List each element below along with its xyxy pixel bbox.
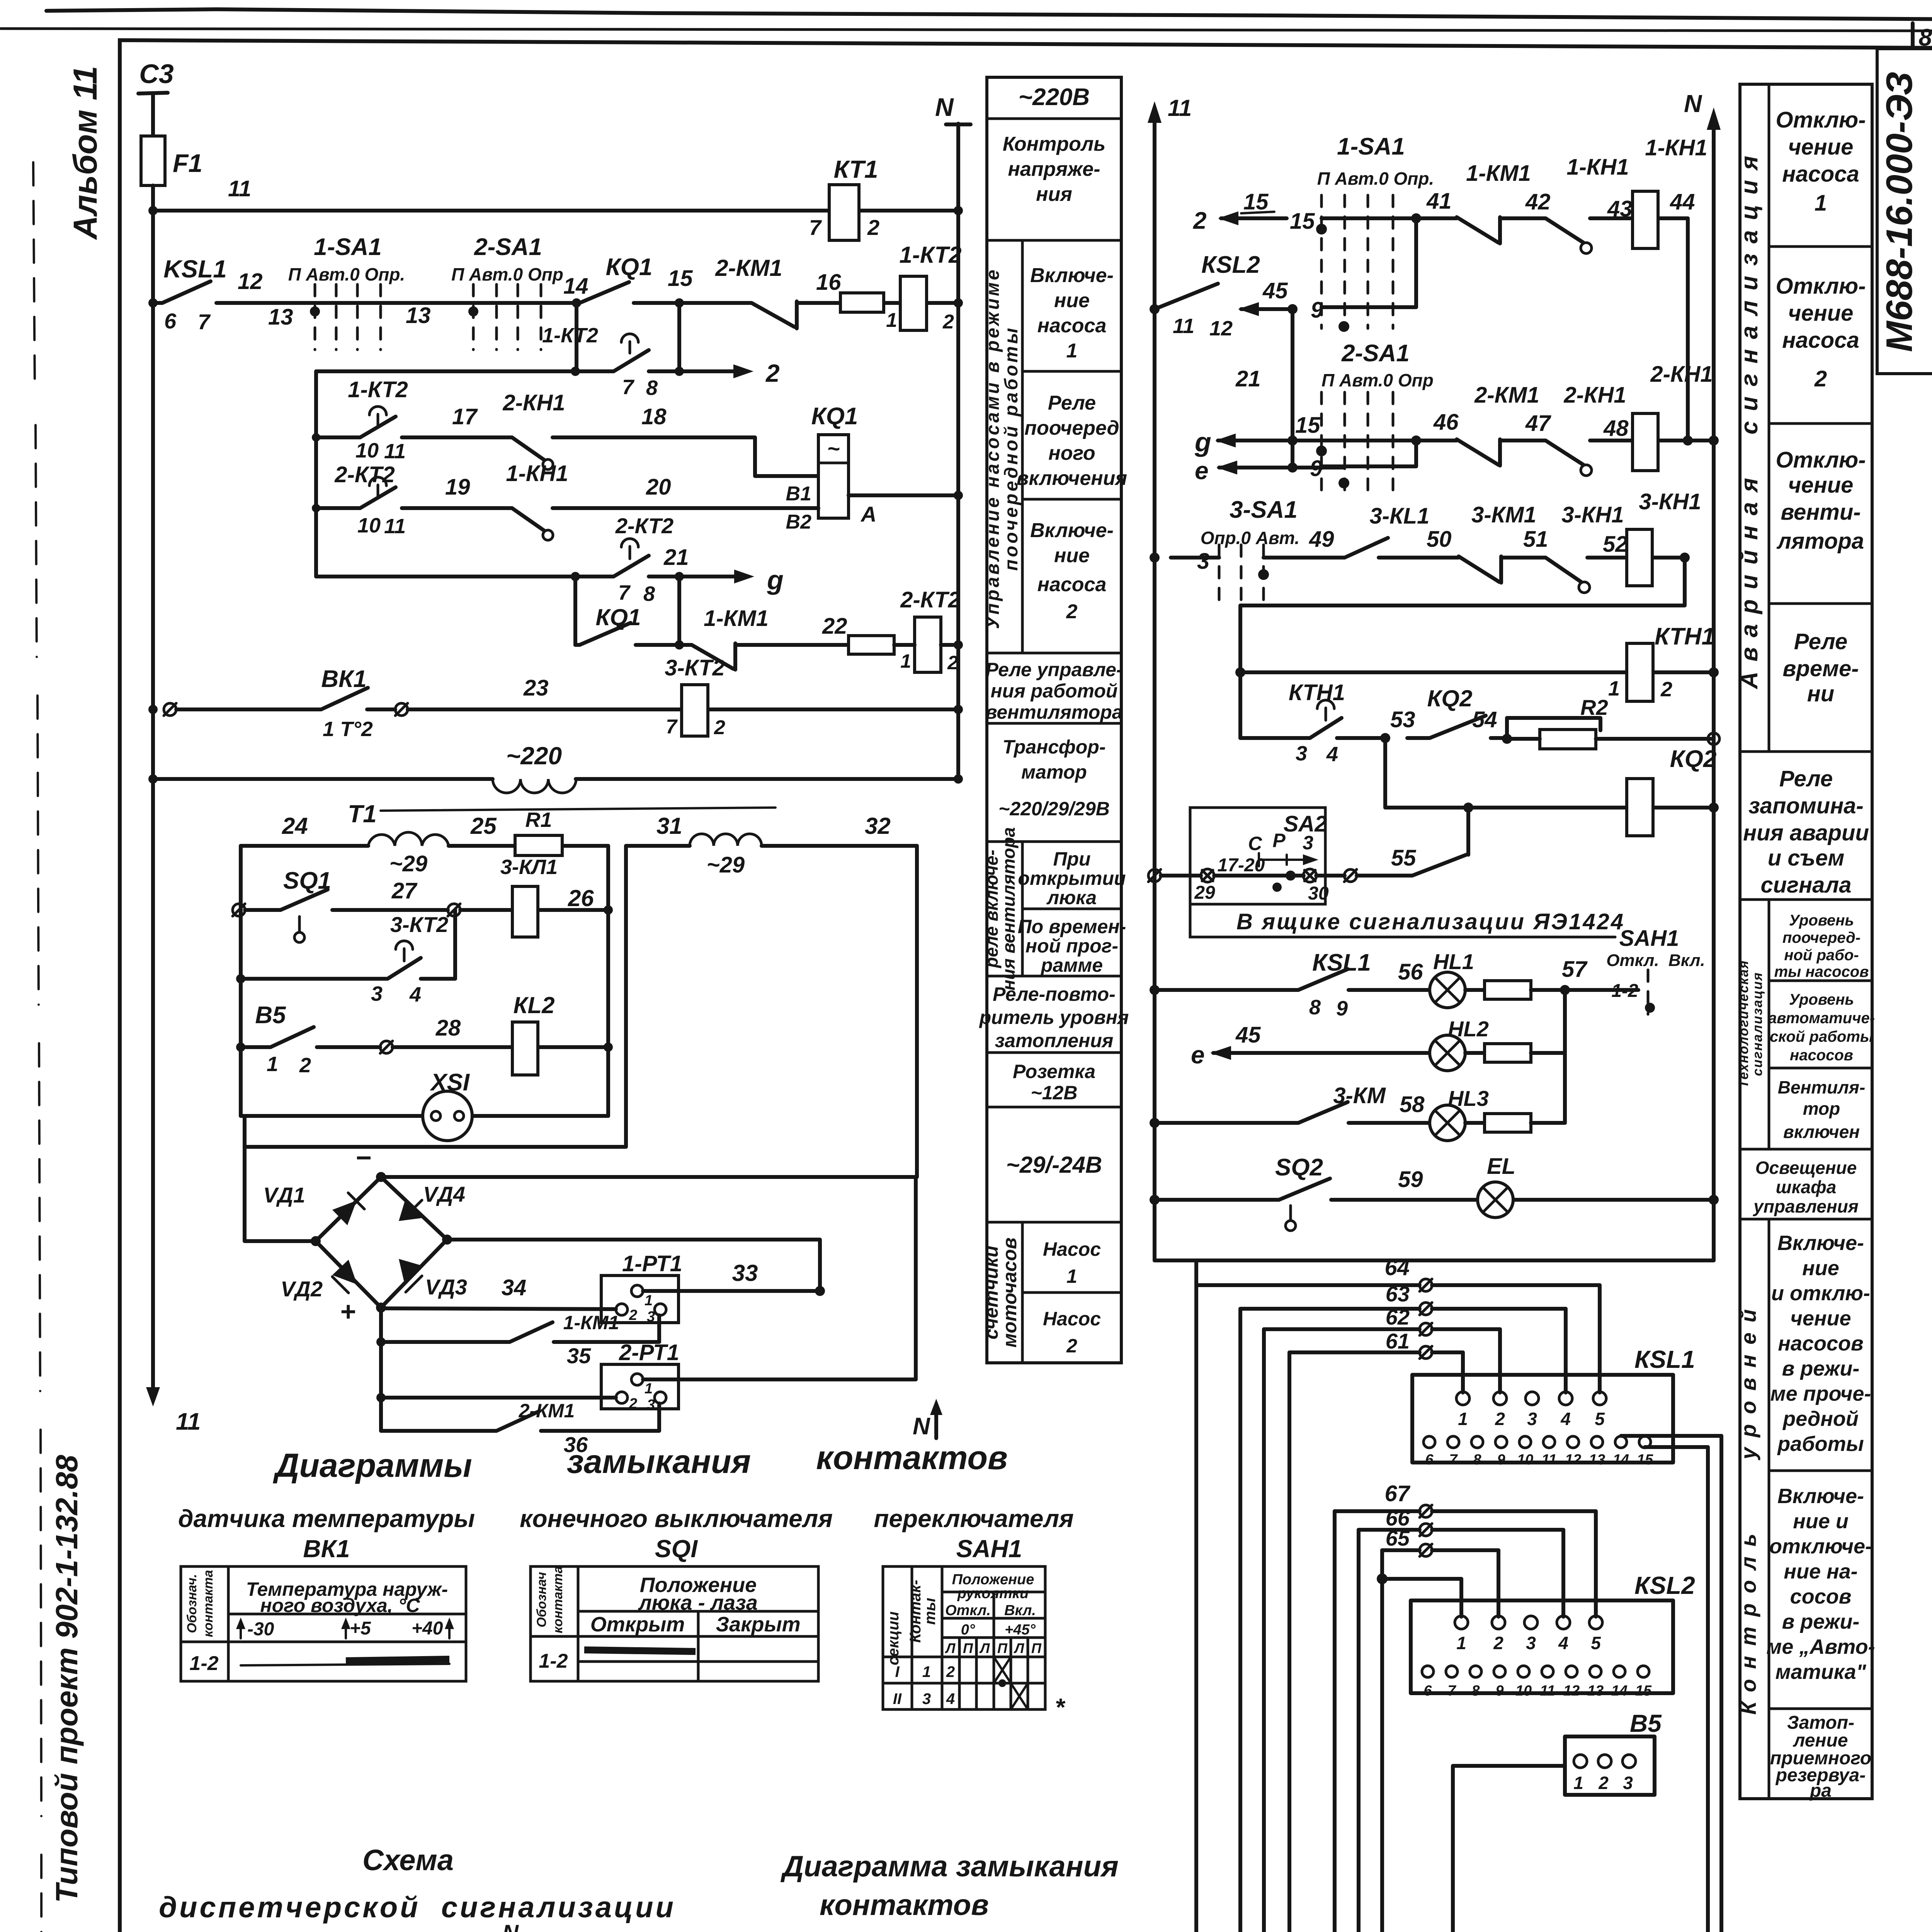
- svg-text:VД4: VД4: [423, 1182, 465, 1206]
- svg-text:Контроль: Контроль: [1003, 133, 1105, 155]
- svg-text:21: 21: [663, 545, 689, 570]
- coil 3-KL1: [512, 886, 538, 937]
- svg-text:2: 2: [947, 652, 958, 673]
- svg-text:10: 10: [357, 514, 381, 537]
- svg-text:13: 13: [1589, 1452, 1605, 1468]
- svg-text:ния: ния: [1036, 183, 1072, 206]
- svg-text:КL2: КL2: [514, 992, 555, 1018]
- svg-text:П Авт.0 Опр: П Авт.0 Опр: [1321, 370, 1434, 390]
- svg-text:8: 8: [643, 582, 655, 605]
- wire row2: [1416, 439, 1714, 442]
- svg-text:51: 51: [1523, 527, 1548, 552]
- svg-text:3: 3: [1296, 742, 1307, 765]
- svg-text:2: 2: [1660, 678, 1672, 701]
- svg-text:ние и: ние и: [1793, 1510, 1849, 1533]
- svg-text:+45°: +45°: [1005, 1622, 1036, 1638]
- svg-text:3-КТ2: 3-КТ2: [390, 912, 448, 937]
- svg-text:3: 3: [1623, 1773, 1633, 1793]
- svg-text:9: 9: [1497, 1452, 1505, 1468]
- svg-text:П Авт.0 Опр.: П Авт.0 Опр.: [1317, 168, 1434, 189]
- svg-text:ЕL: ЕL: [1487, 1154, 1515, 1179]
- svg-text:поочеред-: поочеред-: [1782, 929, 1861, 946]
- bus 11 left: [1153, 121, 1156, 1260]
- svg-text:11: 11: [1173, 315, 1194, 338]
- svg-text:11: 11: [1541, 1452, 1556, 1468]
- svg-text:56: 56: [1398, 959, 1423, 985]
- svg-text:ного воздуха, °С: ного воздуха, °С: [260, 1595, 420, 1616]
- wire KQ1 out: [849, 493, 958, 497]
- svg-text:ской работы: ской работы: [1770, 1028, 1873, 1045]
- svg-text:31: 31: [656, 813, 682, 839]
- svg-text:рукоятки: рукоятки: [957, 1585, 1029, 1602]
- box SA2: [1190, 808, 1325, 904]
- svg-text:2-КН1: 2-КН1: [1650, 362, 1713, 387]
- svg-text:Опр.0 Авт.: Опр.0 Авт.: [1201, 528, 1300, 548]
- svg-text:Р: Р: [1272, 830, 1286, 851]
- clamp terminals: [1201, 869, 1214, 882]
- svg-text:моточасов: моточасов: [999, 1238, 1020, 1348]
- svg-text:Розетка: Розетка: [1013, 1061, 1095, 1082]
- svg-text:~220: ~220: [506, 742, 562, 770]
- svg-text:П: П: [963, 1640, 973, 1656]
- svg-text:1: 1: [1066, 340, 1078, 362]
- svg-text:g: g: [1194, 427, 1211, 457]
- svg-text:35: 35: [567, 1344, 591, 1368]
- coil 1-KH1: [1633, 191, 1658, 248]
- svg-text:1-КН1: 1-КН1: [1566, 155, 1629, 180]
- svg-text:26: 26: [568, 885, 594, 911]
- svg-text:1: 1: [645, 1381, 653, 1397]
- svg-text:20: 20: [646, 474, 671, 500]
- svg-text:11: 11: [228, 176, 251, 201]
- svg-text:3-КТ2: 3-КТ2: [665, 655, 725, 680]
- svg-text:работы: работы: [1777, 1432, 1864, 1456]
- coil 3-KH1: [1627, 529, 1652, 586]
- svg-text:Реле: Реле: [1794, 629, 1847, 654]
- svg-text:чение: чение: [1788, 134, 1854, 160]
- svg-text:5: 5: [1591, 1633, 1601, 1653]
- svg-text:2-КН1: 2-КН1: [1563, 383, 1626, 408]
- svg-text:Реле: Реле: [1779, 766, 1833, 791]
- svg-text:4: 4: [1560, 1409, 1571, 1429]
- coil 3-KT2: [682, 685, 708, 736]
- svg-text:тор: тор: [1803, 1099, 1840, 1119]
- svg-text:7: 7: [1449, 1452, 1458, 1468]
- T1 inner right rail: [606, 846, 610, 1116]
- svg-text:23: 23: [523, 675, 549, 701]
- top-right vertical doc-number box: [1877, 49, 1932, 374]
- svg-text:1: 1: [1608, 677, 1620, 700]
- svg-text:N: N: [502, 1920, 519, 1932]
- svg-text:R1: R1: [525, 808, 552, 832]
- svg-text:62: 62: [1386, 1305, 1410, 1329]
- diode VD1: [332, 1201, 357, 1225]
- wire row to pin2: [376, 1393, 386, 1402]
- svg-text:55: 55: [1391, 845, 1416, 871]
- svg-text:8: 8: [1471, 1683, 1480, 1699]
- svg-text:3: 3: [1197, 549, 1209, 574]
- svg-text:g: g: [767, 565, 784, 595]
- svg-text:ты насосов: ты насосов: [1774, 963, 1869, 980]
- svg-text:Обознач: Обознач: [534, 1572, 549, 1628]
- terminal: [395, 703, 408, 716]
- svg-text:КSL2: КSL2: [1201, 252, 1260, 278]
- svg-text:15: 15: [1243, 189, 1269, 214]
- svg-text:ме „Авто-: ме „Авто-: [1766, 1635, 1875, 1658]
- svg-text:7: 7: [198, 310, 211, 334]
- lamp row 56 KSL1: [1150, 985, 1160, 995]
- winding ~220: [493, 779, 576, 793]
- svg-text:2: 2: [1598, 1773, 1609, 1793]
- svg-text:Управление насосами в режиме: Управление насосами в режиме: [983, 267, 1003, 629]
- svg-text:Контроль уровней: Контроль уровней: [1736, 1299, 1760, 1714]
- svg-text:63: 63: [1386, 1282, 1410, 1306]
- svg-text:8: 8: [646, 376, 658, 400]
- wire drop 53: [1383, 738, 1387, 808]
- contact KSL1: [162, 281, 211, 303]
- svg-text:48: 48: [1603, 416, 1629, 441]
- wire branch y961: [577, 303, 679, 371]
- svg-text:1-КН1: 1-КН1: [506, 461, 568, 486]
- svg-text:Вкл.: Вкл.: [1004, 1602, 1036, 1619]
- svg-text:1-КМ1: 1-КМ1: [704, 606, 769, 631]
- svg-text:Диаграммы: Диаграммы: [272, 1447, 472, 1484]
- svg-text:насоса: насоса: [1037, 315, 1107, 337]
- svg-text:3: 3: [371, 982, 383, 1005]
- svg-text:напряже-: напряже-: [1008, 158, 1100, 180]
- svg-text:П: П: [997, 1640, 1008, 1656]
- svg-text:53: 53: [1390, 707, 1415, 732]
- svg-text:KSL1: KSL1: [163, 255, 227, 283]
- svg-text:50: 50: [1427, 527, 1452, 552]
- contact 1-KM1 row35: [376, 1337, 386, 1347]
- svg-text:1: 1: [922, 1663, 931, 1680]
- svg-text:С: С: [1248, 833, 1262, 854]
- svg-text:3-КН1: 3-КН1: [1639, 489, 1701, 514]
- svg-text:ние: ние: [1802, 1257, 1839, 1280]
- table BK1: [181, 1566, 466, 1681]
- svg-text:4: 4: [1326, 743, 1338, 766]
- svg-text:1-КМ1: 1-КМ1: [1466, 161, 1531, 186]
- svg-text:2: 2: [1193, 207, 1206, 234]
- arrow to g: [679, 575, 737, 578]
- diode bridge: [316, 1177, 447, 1308]
- svg-text:отключе-: отключе-: [1769, 1535, 1872, 1558]
- svg-text:SАН1: SАН1: [1619, 926, 1679, 951]
- svg-text:32: 32: [865, 813, 891, 839]
- svg-text:11: 11: [1168, 95, 1192, 121]
- svg-text:В ящике сигнализации ЯЭ1424: В ящике сигнализации ЯЭ1424: [1236, 909, 1625, 934]
- svg-text:Включе-: Включе-: [1030, 264, 1114, 287]
- svg-text:диспетчерской сигнализации: диспетчерской сигнализации: [159, 1891, 676, 1924]
- svg-text:4: 4: [946, 1690, 955, 1708]
- svg-text:Типовой проект 902-1-132.88: Типовой проект 902-1-132.88: [49, 1455, 84, 1903]
- left page edge dashes: [33, 162, 42, 1932]
- svg-text:7: 7: [622, 376, 635, 399]
- svg-text:2: 2: [1066, 600, 1078, 623]
- wire 33: [643, 1289, 820, 1293]
- svg-text:люка - лаза: люка - лаза: [638, 1591, 758, 1614]
- svg-text:Насос: Насос: [1043, 1308, 1101, 1330]
- svg-text:41: 41: [1426, 189, 1452, 214]
- svg-text:N: N: [1684, 90, 1702, 117]
- svg-text:4: 4: [409, 983, 421, 1006]
- svg-text:3: 3: [1527, 1409, 1537, 1429]
- svg-text:насоса: насоса: [1782, 162, 1859, 187]
- contact KQ2 row55: [1412, 808, 1468, 876]
- svg-text:насосов: насосов: [1790, 1047, 1853, 1064]
- right column cell texts: [1743, 107, 1869, 898]
- svg-text:VД1: VД1: [263, 1183, 305, 1207]
- svg-text:2-КМ1: 2-КМ1: [519, 1400, 575, 1422]
- svg-text:ние: ние: [1054, 544, 1090, 567]
- svg-text:7: 7: [809, 215, 822, 240]
- sheet no. 81 box: [1913, 23, 1932, 49]
- B5 feed wire: [1453, 1766, 1565, 1932]
- svg-text:81: 81: [1919, 24, 1932, 51]
- svg-text:време-: време-: [1782, 656, 1859, 681]
- svg-text:8: 8: [1473, 1452, 1481, 1468]
- svg-text:*: *: [1055, 1693, 1066, 1721]
- svg-text:22: 22: [822, 614, 847, 639]
- T1 outer loop: [245, 846, 626, 1147]
- svg-text:67: 67: [1384, 1481, 1410, 1506]
- svg-text:14: 14: [1611, 1683, 1628, 1699]
- svg-text:1 Т°2: 1 Т°2: [323, 718, 373, 741]
- svg-text:Отклю-: Отклю-: [1776, 274, 1866, 299]
- svg-text:ния вентилятора: ния вентилятора: [998, 827, 1019, 991]
- svg-text:1-КТ2: 1-КТ2: [900, 242, 962, 268]
- svg-text:контактов: контактов: [816, 1439, 1008, 1476]
- svg-text:14: 14: [1613, 1452, 1629, 1468]
- svg-text:13: 13: [406, 303, 431, 328]
- svg-text:КSL2: КSL2: [1634, 1571, 1695, 1599]
- svg-text:1-КМ1: 1-КМ1: [563, 1312, 619, 1333]
- svg-text:28: 28: [435, 1015, 461, 1041]
- svg-text:29: 29: [1194, 883, 1215, 903]
- T1 winding row: [241, 844, 608, 848]
- contact 1-KT2 time: [614, 350, 649, 371]
- wire B5 row: [236, 1043, 245, 1052]
- svg-text:ной прог-: ной прог-: [1026, 935, 1118, 957]
- contact KQ1: [572, 298, 581, 308]
- svg-text:1: 1: [1456, 1633, 1466, 1653]
- svg-text:2-КМ1: 2-КМ1: [715, 255, 782, 281]
- svg-text:11: 11: [384, 440, 406, 463]
- svg-text:В2: В2: [786, 511, 812, 533]
- svg-text:12: 12: [1565, 1452, 1581, 1468]
- svg-text:15: 15: [1637, 1452, 1653, 1468]
- svg-text:59: 59: [1398, 1167, 1423, 1192]
- svg-text:5: 5: [1595, 1409, 1605, 1429]
- resistor R2: [1540, 730, 1596, 749]
- svg-text:Закрыт: Закрыт: [716, 1613, 800, 1636]
- svg-text:3: 3: [647, 1397, 655, 1413]
- svg-text:Насос: Насос: [1043, 1238, 1101, 1260]
- wire row 19-20: [319, 506, 818, 510]
- wire row 21: [316, 575, 679, 578]
- svg-text:3: 3: [647, 1309, 655, 1325]
- sub box left rail: [314, 371, 318, 577]
- svg-text:64: 64: [1384, 1255, 1410, 1280]
- svg-text:в режи-: в режи-: [1782, 1610, 1860, 1633]
- svg-text:ме проче-: ме проче-: [1770, 1382, 1871, 1405]
- contact 2-KM1 row36: [381, 1403, 659, 1431]
- wire 34: [381, 1308, 616, 1309]
- svg-text:N: N: [913, 1413, 930, 1440]
- svg-text:А: А: [860, 502, 876, 526]
- svg-text:2: 2: [765, 359, 780, 387]
- diode VD3: [399, 1259, 423, 1284]
- svg-text:в режи-: в режи-: [1782, 1357, 1860, 1380]
- svg-text:1-2: 1-2: [539, 1650, 568, 1672]
- svg-text:10: 10: [1517, 1452, 1533, 1468]
- svg-text:Трансфор-: Трансфор-: [1003, 736, 1106, 758]
- wire SQ1 row: [245, 908, 608, 912]
- svg-text:3: 3: [1526, 1633, 1536, 1653]
- diode VD2: [332, 1260, 357, 1284]
- svg-text:1-SA1: 1-SA1: [314, 234, 382, 260]
- svg-text:~: ~: [827, 436, 840, 461]
- svg-text:6: 6: [1423, 1683, 1432, 1699]
- svg-text:-30: -30: [247, 1619, 274, 1639]
- svg-text:сигнализация: сигнализация: [1750, 972, 1765, 1076]
- KSL1 right wires: [1621, 1436, 1721, 1447]
- svg-text:КТН1: КТН1: [1655, 623, 1715, 650]
- svg-text:2: 2: [1814, 366, 1827, 391]
- svg-text:ты: ты: [922, 1598, 939, 1625]
- svg-text:9: 9: [1311, 298, 1323, 323]
- svg-text:2: 2: [946, 1663, 955, 1680]
- svg-text:2-КТ2: 2-КТ2: [900, 587, 961, 612]
- lamp EL row SQ2: [1150, 1195, 1160, 1205]
- svg-text:чение: чение: [1788, 301, 1854, 326]
- svg-text:контакта: контакта: [551, 1566, 565, 1633]
- svg-text:12: 12: [1563, 1683, 1580, 1699]
- svg-text:П Авт.0 Опр.: П Авт.0 Опр.: [288, 264, 405, 284]
- svg-text:16: 16: [816, 270, 841, 295]
- table SQ1: [531, 1566, 818, 1681]
- svg-text:ВК1: ВК1: [303, 1535, 350, 1563]
- svg-text:52: 52: [1603, 532, 1628, 557]
- svg-text:3-КМ1: 3-КМ1: [1471, 502, 1536, 527]
- svg-text:17-20: 17-20: [1218, 855, 1265, 876]
- resistor: [840, 293, 884, 312]
- svg-text:24: 24: [282, 813, 308, 839]
- svg-text:2-КН1: 2-КН1: [502, 390, 565, 415]
- svg-text:ра: ра: [1809, 1781, 1832, 1801]
- wire row ~220: [153, 777, 958, 781]
- svg-text:2-КТ2: 2-КТ2: [615, 514, 673, 538]
- svg-text:Технологическая: Технологическая: [1736, 960, 1751, 1088]
- svg-text:1: 1: [645, 1293, 653, 1309]
- KSL2 pin stems: [1461, 1511, 1596, 1617]
- svg-text:54: 54: [1472, 707, 1497, 732]
- svg-text:19: 19: [445, 474, 470, 500]
- svg-text:датчика температуры: датчика температуры: [178, 1505, 475, 1532]
- svg-text:1-КТ2: 1-КТ2: [348, 377, 408, 402]
- svg-text:сосов: сосов: [1790, 1585, 1852, 1608]
- svg-text:0°: 0°: [961, 1622, 975, 1638]
- svg-text:переключателя: переключателя: [874, 1505, 1073, 1532]
- svg-text:включения: включения: [1017, 467, 1127, 490]
- svg-text:В1: В1: [786, 483, 811, 505]
- svg-text:поочередной работы: поочередной работы: [1001, 326, 1022, 571]
- wire bundle verticals: [1194, 1260, 1198, 1932]
- svg-text:SАН1: SАН1: [956, 1535, 1022, 1563]
- svg-text:SQI: SQI: [655, 1535, 698, 1563]
- contact 2-KT2: [360, 487, 396, 508]
- wire row 11: [153, 209, 958, 213]
- svg-text:При: При: [1053, 848, 1090, 870]
- svg-text:2: 2: [299, 1054, 311, 1077]
- svg-text:15: 15: [1290, 209, 1315, 234]
- svg-text:Аварийная сигнализация: Аварийная сигнализация: [1736, 146, 1763, 690]
- svg-text:редной: редной: [1782, 1407, 1859, 1430]
- svg-text:1: 1: [900, 650, 911, 672]
- svg-text:58: 58: [1400, 1092, 1425, 1117]
- svg-text:НL1: НL1: [1433, 949, 1474, 974]
- svg-text:ной рабо-: ной рабо-: [1784, 947, 1859, 964]
- svg-text:Вентиля-: Вентиля-: [1778, 1077, 1866, 1097]
- svg-text:~29: ~29: [707, 852, 745, 878]
- svg-text:Отклю-: Отклю-: [1776, 447, 1866, 473]
- wire drops: [575, 577, 679, 645]
- dc mid wire: [447, 1240, 820, 1291]
- svg-text:затопления: затопления: [995, 1030, 1114, 1051]
- svg-text:C3: C3: [139, 59, 174, 89]
- svg-text:47: 47: [1525, 411, 1551, 436]
- svg-text:~220/29/29В: ~220/29/29В: [998, 798, 1110, 820]
- svg-text:9: 9: [1336, 997, 1348, 1020]
- svg-text:2: 2: [942, 311, 954, 333]
- svg-text:F1: F1: [173, 149, 202, 177]
- svg-text:10: 10: [355, 439, 379, 462]
- svg-text:13: 13: [1587, 1683, 1604, 1699]
- svg-text:57: 57: [1562, 957, 1588, 982]
- svg-text:и отклю-: и отклю-: [1771, 1282, 1870, 1305]
- dc top wire: [381, 1177, 916, 1379]
- svg-text:61: 61: [1386, 1329, 1410, 1353]
- svg-text:Включе-: Включе-: [1777, 1231, 1864, 1255]
- svg-text:SQ2: SQ2: [1275, 1154, 1323, 1181]
- svg-text:Л: Л: [945, 1640, 956, 1656]
- svg-text:3: 3: [922, 1690, 931, 1708]
- svg-text:42: 42: [1525, 189, 1551, 214]
- svg-text:II: II: [893, 1690, 902, 1708]
- svg-text:П Авт.0 Опр: П Авт.0 Опр: [451, 264, 563, 284]
- svg-text:VД3: VД3: [425, 1275, 467, 1299]
- svg-text:1-2: 1-2: [1611, 981, 1638, 1001]
- svg-text:~29/-24В: ~29/-24В: [1006, 1152, 1102, 1178]
- svg-text:открытии: открытии: [1018, 867, 1126, 889]
- svg-text:1: 1: [1458, 1409, 1468, 1429]
- contact 2-KT2 time: [614, 556, 649, 577]
- svg-text:~220В: ~220В: [1019, 84, 1090, 111]
- svg-text:3-КЛ1: 3-КЛ1: [500, 855, 558, 879]
- svg-text:~12В: ~12В: [1031, 1082, 1078, 1104]
- svg-text:1: 1: [1573, 1773, 1583, 1793]
- svg-text:3: 3: [1303, 832, 1313, 854]
- bottom tie: [1155, 1259, 1714, 1262]
- svg-text:Освещение: Освещение: [1755, 1158, 1857, 1178]
- svg-text:лятора: лятора: [1776, 529, 1864, 554]
- resistor R2 bypass: [1507, 718, 1600, 739]
- svg-text:−: −: [355, 1143, 371, 1173]
- svg-text:КQ2: КQ2: [1427, 685, 1473, 711]
- svg-text:46: 46: [1433, 410, 1459, 435]
- svg-text:ния аварии: ния аварии: [1743, 820, 1869, 845]
